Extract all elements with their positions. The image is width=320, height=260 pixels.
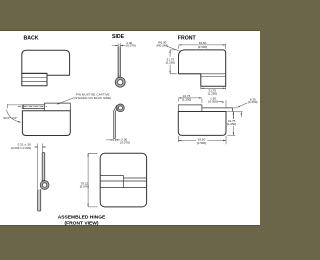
FRONT bottom-right dim line <box>201 87 226 90</box>
top band lower edge line <box>0 30 260 31</box>
bottom band upper edge line <box>0 225 260 226</box>
svg-text:[0.250]: [0.250] <box>248 100 257 104</box>
svg-text:[1.250]: [1.250] <box>227 122 236 126</box>
svg-text:[2.500]: [2.500] <box>198 45 207 49</box>
svg-text:(FRONT VIEW): (FRONT VIEW) <box>65 221 99 227</box>
pin dia dim ticks <box>34 144 46 190</box>
FRONT top dim arrowheads <box>179 44 226 45</box>
angle reference line <box>7 104 22 108</box>
FRONT view bottom block top edge <box>179 73 226 75</box>
FRONT left dim line <box>170 50 177 74</box>
middle-right bottom dim arrowheads <box>178 140 226 141</box>
note leader to knuckle <box>57 98 74 104</box>
middle-right open view leaf <box>178 112 226 136</box>
middle side view hanging leaf bar <box>114 105 118 138</box>
SIDE view leaf bar <box>118 46 120 77</box>
FRONT R6.30 leader <box>167 46 180 51</box>
svg-text:(STAKED ON BACK SIDE): (STAKED ON BACK SIDE) <box>74 96 111 100</box>
middle-right right-side dim <box>227 112 235 136</box>
BACK view joint line 2 <box>22 80 47 82</box>
SIDE view knuckle coil donut <box>115 77 125 87</box>
assembled side view knuckle coil donut <box>40 181 49 190</box>
assembled joint upper-left line <box>100 175 123 177</box>
white drawing sheet <box>0 31 260 225</box>
assembled dim arrowheads <box>87 153 88 207</box>
svg-text:[2.500]: [2.500] <box>197 141 206 145</box>
BACK view main body <box>22 50 70 75</box>
tab dim arrowheads <box>178 97 202 98</box>
note leader arrowhead <box>57 103 60 105</box>
svg-text:SIDE: SIDE <box>112 34 125 40</box>
middle-right open view pin protruding right <box>202 108 233 112</box>
middle-left open view knuckle <box>45 103 71 111</box>
svg-text:2.0°: 2.0° <box>12 116 18 120</box>
assembled lower bar end cap <box>38 210 41 212</box>
assembled side view lower leaf bar <box>38 189 41 211</box>
middle-left pin centerline <box>18 106 47 108</box>
svg-text:ASSEMBLED HINGE: ASSEMBLED HINGE <box>58 215 106 221</box>
bar interior shading <box>38 46 120 210</box>
svg-text:FRONT: FRONT <box>178 35 197 41</box>
assembled joint middle line <box>100 180 146 182</box>
middle-right bottom dim <box>178 136 226 144</box>
middle-right 1.50 leader <box>218 100 226 107</box>
assembled upper bar end cap <box>42 179 45 181</box>
BACK view joint line 1 <box>22 77 47 79</box>
svg-text:[0.079]: [0.079] <box>120 140 129 144</box>
svg-text:[1.250]: [1.250] <box>166 61 175 65</box>
middle-right open view knuckle tab <box>178 105 202 112</box>
svg-text:[0.079]: [0.079] <box>126 44 135 48</box>
middle-left open view leaf <box>22 111 70 136</box>
svg-text:[0.059]: [0.059] <box>208 100 217 104</box>
FRONT view main body <box>179 50 226 86</box>
assembled left dim <box>88 153 97 207</box>
svg-text:[0.209 ± 0.020]: [0.209 ± 0.020] <box>11 146 31 150</box>
middle-right 6.35 marks <box>226 103 247 119</box>
FRONT left dim arrowheads <box>169 50 170 74</box>
SIDE thickness dim <box>112 43 126 46</box>
svg-text:BACK: BACK <box>24 36 39 42</box>
angle leader arrowhead <box>18 121 21 123</box>
FRONT top dim line <box>179 44 226 49</box>
svg-text:[1.250]: [1.250] <box>182 98 191 102</box>
middle-right tab dim <box>178 98 202 103</box>
svg-text:[R0.248]: [R0.248] <box>157 43 169 47</box>
assembled joint step vertical <box>123 176 125 188</box>
assembled side view upper leaf bar <box>42 153 44 181</box>
middle-right right dim arrowheads <box>233 112 242 136</box>
middle side view knuckle coil donut <box>117 104 125 112</box>
FRONT view bottom block joint line <box>201 76 226 78</box>
middle-left pin end cap <box>23 105 25 109</box>
svg-text:[3.076]: [3.076] <box>80 185 89 189</box>
6.35 leader arrowhead <box>237 106 240 108</box>
assembled joint lower line <box>100 187 146 189</box>
middle-left open view pin barrel <box>22 105 44 109</box>
middle side dim arrowheads <box>111 139 119 140</box>
FRONT bottom dim arrowheads <box>201 88 226 89</box>
svg-text:-: - <box>10 115 11 119</box>
BACK view lower leaf block <box>22 73 47 85</box>
dim text 31.75 [1.250] right <box>227 119 237 126</box>
assembled joint upper-right line <box>124 177 147 179</box>
SIDE dim arrowheads <box>115 45 123 46</box>
dim text 31.75 [1.250] front left <box>164 57 176 64</box>
svg-text:[1.250]: [1.250] <box>208 91 217 95</box>
SIDE view bar end cap <box>118 75 121 77</box>
pin dia arrowheads <box>35 146 45 147</box>
middle side view bottom dim <box>106 139 121 141</box>
angle arc leader <box>7 110 21 123</box>
assembled hinge front view outline <box>100 153 146 207</box>
1.50 leader arrowhead <box>222 101 225 102</box>
